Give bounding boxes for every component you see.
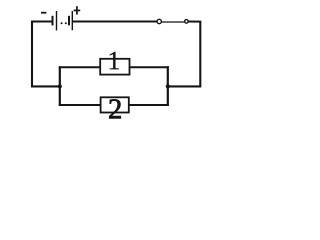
wire left vertical bbox=[31, 22, 33, 87]
wire left feed (node A horizontal) bbox=[31, 85, 60, 87]
wire battery to switch bbox=[73, 21, 157, 23]
battery B1 cell2 negative plate (short thick) bbox=[68, 16, 70, 26]
resistor R1 box bbox=[100, 59, 129, 75]
wire right feed (node B horizontal) bbox=[168, 85, 202, 87]
battery B1 ellipsis dot 2 bbox=[65, 22, 67, 24]
battery B1 cell1 positive plate (long thin) bbox=[56, 11, 58, 31]
wire parallel-left vertical bbox=[59, 66, 61, 106]
wire right vertical bbox=[199, 22, 201, 87]
junction node A dot bbox=[58, 84, 62, 88]
battery B1 ellipsis dot 1 bbox=[61, 22, 63, 24]
battery B1 cell2 positive plate (long thin) bbox=[71, 11, 73, 30]
resistor R2 box bbox=[101, 97, 129, 112]
wire parallel-right vertical bbox=[167, 66, 169, 106]
battery B1 plus sign label bbox=[74, 6, 81, 14]
switch S1 blade (thin line) bbox=[162, 21, 185, 23]
wire top branch left bbox=[59, 66, 100, 68]
switch S1 terminal circle left bbox=[157, 19, 161, 23]
wire switch to top-right corner bbox=[188, 21, 201, 23]
wire top branch right bbox=[130, 66, 169, 68]
wire top-left segment (battery negative lead) bbox=[31, 21, 52, 23]
resistor R2 label 2 bbox=[109, 99, 121, 118]
battery B1 cell1 negative plate (short thick) bbox=[52, 16, 54, 26]
junction node B dot bbox=[166, 84, 170, 88]
wire bottom branch right bbox=[129, 104, 169, 106]
switch S1 terminal circle right bbox=[185, 20, 189, 24]
battery B1 minus sign label bbox=[41, 12, 46, 14]
wire bottom branch left bbox=[59, 104, 101, 106]
resistor R1 label 1 bbox=[110, 52, 119, 69]
